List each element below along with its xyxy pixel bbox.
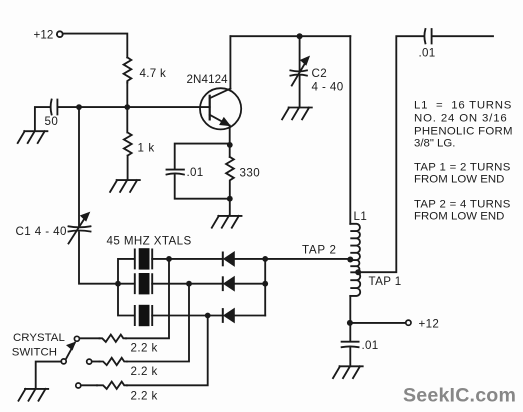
svg-text:C1 4 - 40: C1 4 - 40: [16, 225, 67, 238]
wire emitter down: [229, 126, 231, 157]
junction dot bottom +12 node: [347, 320, 353, 326]
svg-text:CRYSTAL: CRYSTAL: [13, 332, 65, 344]
wire drop row1 to R4: [126, 259, 169, 338]
wire R6 to throw3: [81, 384, 97, 386]
wire R5 to throw2: [92, 361, 100, 363]
wire drop row2 to R5: [127, 284, 189, 362]
svg-text:NO. 24 ON 3/16: NO. 24 ON 3/16: [414, 113, 508, 125]
junction dot base node: [124, 104, 130, 110]
diode D1: [223, 252, 235, 266]
capacitor C2 4-40 variable: [290, 36, 309, 107]
wire bypass branch bottom: [175, 175, 230, 199]
wire D3 to rail: [234, 315, 265, 317]
svg-text:FROM LOW END: FROM LOW END: [414, 211, 504, 223]
wire pole to ground: [36, 362, 62, 389]
ground bottom: [333, 366, 363, 378]
resistor R5 2.2k row2: [100, 358, 127, 365]
svg-text:330: 330: [240, 167, 261, 180]
svg-text:TAP 1: TAP 1: [369, 275, 402, 288]
svg-text:.01: .01: [187, 166, 204, 179]
wire C1 branch lower to crystal rail: [79, 232, 118, 283]
wire input cap left to ground: [35, 107, 51, 131]
resistor R6 2.2k row3: [97, 382, 127, 389]
switch pole terminal: [61, 359, 66, 364]
wire D2 to rail: [234, 283, 265, 285]
svg-text:2.2 k: 2.2 k: [131, 342, 158, 355]
wire +12 feed to R1 top: [62, 34, 127, 58]
capacitor C5 .01 bottom: [342, 342, 359, 348]
wire R4 to throw1: [79, 337, 99, 339]
svg-text:4.7 k: 4.7 k: [140, 67, 167, 80]
terminal +12 bottom: [406, 320, 411, 325]
wire top rail corner down to L1: [349, 36, 351, 224]
svg-text:SeekIC.com: SeekIC.com: [403, 385, 516, 407]
crystal Y1: [135, 248, 152, 269]
wire R3 to ground: [229, 199, 231, 216]
svg-text:L1: L1: [354, 210, 368, 223]
svg-text:TAP 2 = 4 TURNS: TAP 2 = 4 TURNS: [414, 199, 511, 211]
junction dot C2 node: [297, 33, 303, 39]
wire TAP1 to output riser: [358, 36, 424, 272]
junction dot rail mid: [115, 281, 121, 287]
terminal +12 top: [57, 31, 63, 37]
svg-text:+12: +12: [419, 318, 440, 331]
switch arm arrowhead: [67, 343, 75, 350]
wire base line: [58, 106, 209, 108]
switch arm: [66, 343, 75, 360]
svg-text:.01: .01: [362, 339, 379, 352]
junction dot row1: [166, 256, 172, 262]
wire collector up: [229, 36, 231, 88]
svg-text:3/8" LG.: 3/8" LG.: [414, 138, 455, 150]
ground R3: [212, 216, 242, 228]
wire C5 to ground: [349, 347, 351, 366]
diode D3: [223, 309, 235, 323]
svg-text:PHENOLIC FORM: PHENOLIC FORM: [414, 126, 513, 138]
svg-text:SWITCH: SWITCH: [12, 347, 57, 359]
svg-text:2.2 k: 2.2 k: [131, 365, 158, 378]
resistor R1 4.7k: [124, 57, 132, 82]
junction dot 50/C1 node: [76, 104, 82, 110]
ground input: [18, 131, 48, 143]
note text block: [414, 100, 513, 223]
capacitor C3 .01 bypass: [167, 170, 184, 175]
junction dot rail row1: [262, 256, 268, 262]
junction dot TAP2 on coil: [347, 257, 353, 263]
resistor R4 2.2k row1: [100, 335, 127, 342]
wire D1 to TAP2: [234, 258, 350, 260]
junction dot emitter node: [227, 142, 233, 148]
wire Y3 to D3: [152, 315, 222, 317]
terminal throw3: [76, 383, 81, 388]
crystal Y2: [135, 273, 152, 294]
junction dot row3: [205, 313, 211, 319]
wire to +12 bottom terminal: [352, 322, 406, 324]
svg-text:+12: +12: [34, 29, 54, 42]
ground R2: [110, 180, 140, 192]
terminal throw1: [74, 336, 79, 341]
wire top rail: [230, 35, 350, 37]
svg-text:1 k: 1 k: [138, 142, 155, 155]
wire crystal left rail: [118, 259, 135, 316]
svg-text:45 MHZ XTALS: 45 MHZ XTALS: [107, 235, 192, 248]
svg-text:4 - 40: 4 - 40: [312, 81, 344, 94]
crystal Y3: [135, 305, 152, 326]
capacitor 50 (input coupling): [51, 100, 58, 115]
inductor L1: [350, 224, 360, 296]
wire L1 bottom: [349, 296, 351, 341]
junction dot rail row2: [262, 281, 268, 287]
capacitor C1 4-40 variable: [69, 213, 91, 244]
svg-text:TAP 1 = 2 TURNS: TAP 1 = 2 TURNS: [414, 162, 511, 174]
svg-text:.01: .01: [419, 47, 436, 60]
capacitor C6 .01 output: [424, 29, 431, 43]
svg-text:2N4124: 2N4124: [187, 73, 229, 86]
svg-text:2.2 k: 2.2 k: [131, 390, 158, 403]
junction dot TAP1 on coil: [355, 269, 361, 275]
wire bypass branch top: [175, 144, 230, 170]
wire Y1 to D1: [152, 258, 222, 260]
wire drop row3 to R6: [127, 316, 208, 386]
ground C2: [282, 108, 312, 120]
resistor R3 330: [226, 157, 234, 199]
transistor Q1 2N4124: [200, 88, 241, 129]
ground switch: [19, 389, 49, 401]
wire output right: [433, 35, 493, 37]
terminal throw2: [87, 359, 92, 364]
wire Y2 to D2: [152, 283, 222, 285]
svg-text:FROM LOW END: FROM LOW END: [414, 174, 504, 186]
wire C1 branch upper: [78, 107, 80, 226]
svg-text:TAP 2: TAP 2: [302, 244, 337, 257]
junction dot R3 bottom: [227, 196, 233, 202]
svg-text:C2: C2: [312, 67, 328, 80]
diode D2: [223, 277, 235, 291]
svg-text:50: 50: [45, 115, 59, 128]
resistor R2 1k: [124, 107, 132, 180]
wire R1 bottom to base node: [126, 83, 128, 108]
svg-text:L1 = 16 TURNS: L1 = 16 TURNS: [414, 100, 512, 112]
junction dot row2: [186, 281, 192, 287]
wire diode output rail: [264, 259, 266, 316]
